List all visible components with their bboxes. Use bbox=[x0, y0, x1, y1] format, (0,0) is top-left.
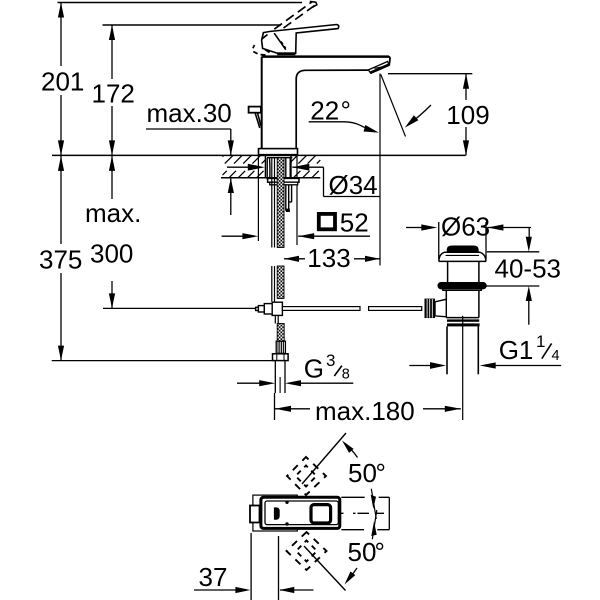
drain union nut bbox=[447, 319, 479, 321]
svg-text:50: 50 bbox=[348, 458, 377, 488]
dimension 375 vertical line bbox=[60, 156, 62, 244]
hole left edge bbox=[264, 155, 266, 177]
dashed diamond bottom inner bbox=[296, 541, 317, 562]
G3/8 nut bbox=[273, 354, 289, 361]
base plate bottom dark line bbox=[258, 154, 297, 156]
top view square spout section bbox=[311, 505, 331, 523]
arrowheads: dimension 201 bbox=[58, 3, 64, 18]
swivel X mark lines bbox=[371, 489, 376, 519]
40-53 bottom reference line bbox=[485, 285, 540, 287]
dashed diamond top inner bbox=[296, 466, 317, 487]
arrowheads: G3/8 bbox=[259, 380, 275, 386]
counter top line bbox=[52, 154, 466, 156]
shank top inner line bbox=[267, 157, 292, 159]
horizontal pop-up rod bbox=[282, 307, 421, 311]
top view D mark bbox=[274, 507, 280, 519]
arrowheads: dia34 bbox=[248, 164, 265, 171]
375 bottom reference line bbox=[52, 360, 273, 362]
G1 1/4 leader line bbox=[495, 365, 561, 367]
dimension max300 vertical line bbox=[111, 156, 113, 199]
37 extension line left bbox=[250, 533, 252, 600]
37 extension line right bbox=[278, 536, 280, 600]
50deg diagonal line bottom bbox=[304, 546, 346, 591]
arrowheads: 133 bbox=[284, 256, 299, 262]
max180 dim lines bbox=[275, 408, 310, 410]
svg-text:max.180: max.180 bbox=[315, 396, 415, 426]
side tab wedge bbox=[255, 113, 261, 128]
arrowheads: dia63 bbox=[421, 224, 437, 230]
reference line spout top (172) bbox=[103, 24, 282, 26]
svg-text:375: 375 bbox=[39, 245, 82, 275]
svg-text:52: 52 bbox=[340, 208, 369, 238]
svg-text:max.30: max.30 bbox=[147, 98, 232, 128]
spout right edge with chamfer bbox=[389, 57, 390, 66]
svg-text:Ø34: Ø34 bbox=[329, 170, 378, 200]
max.30 leader underline bbox=[146, 128, 231, 130]
37 arrowheads bbox=[235, 587, 250, 593]
drain body bbox=[446, 290, 479, 317]
svg-text:133: 133 bbox=[307, 243, 350, 273]
109 top reference line bbox=[388, 73, 472, 75]
pull rod upper segment bbox=[271, 158, 273, 248]
Ø34 underline bbox=[324, 196, 381, 198]
counter hatching right of hole bbox=[291, 156, 320, 178]
svg-text:°: ° bbox=[375, 537, 385, 567]
svg-text:8: 8 bbox=[342, 366, 350, 382]
svg-text:37: 37 bbox=[199, 562, 228, 592]
handle lever solid bbox=[262, 25, 339, 54]
G1 1/4 fraction slash bbox=[542, 343, 552, 358]
svg-text:max.: max. bbox=[85, 198, 141, 228]
svg-text:40-53: 40-53 bbox=[495, 254, 562, 284]
50deg bottom leader arc bbox=[348, 568, 358, 581]
arrowhead: G1 1/4 left bbox=[430, 362, 446, 369]
dashed diamond bottom outer bbox=[287, 532, 327, 570]
label sq52 square symbol bbox=[319, 214, 335, 229]
svg-text:1: 1 bbox=[536, 332, 545, 351]
22 deg leader curve bbox=[309, 122, 375, 132]
max180 extension line left bbox=[274, 393, 276, 420]
37 arrow lines bbox=[194, 589, 236, 591]
braided hose segment 3 bbox=[277, 324, 284, 342]
arrowheads: 109 bbox=[463, 74, 469, 89]
G3/8 arrow lines bbox=[237, 382, 260, 384]
top view body inner outline bbox=[265, 501, 338, 525]
22 deg slanted stream line bbox=[381, 75, 406, 137]
50deg top leader arc bbox=[345, 444, 358, 458]
109 dim vertical line bbox=[465, 74, 467, 100]
faucet body left edge bbox=[261, 57, 263, 150]
drain plug cap bbox=[448, 246, 478, 251]
top view base plate thin outline bbox=[253, 495, 297, 531]
counter bottom line bbox=[221, 177, 320, 179]
arrowheads: 40-53 bbox=[526, 237, 532, 252]
drain flange inner line bbox=[446, 254, 479, 256]
50deg diagonal line top bbox=[302, 433, 346, 484]
G3/8 hose end corrugated section bbox=[273, 341, 289, 393]
svg-text:G1: G1 bbox=[499, 335, 534, 365]
svg-text:G: G bbox=[304, 354, 324, 384]
dia63 extension lines bbox=[438, 222, 440, 259]
dia63 arrow lines bbox=[406, 227, 422, 229]
svg-text:3: 3 bbox=[326, 351, 335, 370]
drain o-ring seal bbox=[438, 283, 486, 289]
aerator outline bbox=[368, 62, 389, 74]
arrowheads: max180 bbox=[275, 406, 291, 412]
washer second band bbox=[270, 182, 298, 185]
drain knurled knob bbox=[425, 299, 436, 318]
Ø34 leader vertical bbox=[323, 167, 325, 196]
drain flange left profile bbox=[439, 252, 444, 261]
braided hose segment 2 bbox=[277, 266, 284, 299]
handle inner edge line bbox=[274, 33, 286, 50]
50deg leader arrowheads bbox=[342, 441, 354, 453]
shank left wall bbox=[267, 158, 270, 180]
side tab small rect bbox=[249, 107, 261, 113]
pop-up rod T coupling bbox=[256, 302, 283, 323]
svg-text:201: 201 bbox=[41, 67, 84, 97]
22 deg second leader curve bbox=[408, 105, 431, 125]
40-53 top reference line bbox=[487, 251, 540, 253]
arrowhead: G1 1/4 bbox=[480, 362, 496, 368]
dia63 leader elbow down to 40-53 top arrow bbox=[528, 228, 530, 239]
coupling lower stub bbox=[275, 316, 278, 324]
G3/8 fraction slash bbox=[334, 366, 342, 376]
svg-text:Ø63: Ø63 bbox=[441, 211, 490, 241]
arrowheads: sq52 bbox=[242, 233, 258, 239]
counter hatching left of hole bbox=[223, 156, 266, 178]
svg-text:°: ° bbox=[341, 96, 351, 126]
drain flange bottom edge bbox=[439, 260, 486, 262]
pull rod lower segment bbox=[271, 266, 273, 302]
handle dashed inner arc bbox=[281, 41, 286, 48]
max.30 upper arrow line bbox=[230, 129, 232, 155]
drain flange plate under oring bbox=[443, 289, 482, 291]
svg-text:50: 50 bbox=[348, 537, 377, 567]
drain flange right profile bbox=[480, 252, 486, 261]
handle dashed knuckle outline bbox=[253, 35, 270, 56]
spout underside with fillet bbox=[296, 70, 368, 149]
arrowheads: 22deg leaders bbox=[364, 125, 379, 133]
37 dimension bbox=[194, 533, 314, 600]
arrowheads: dimension 375 bbox=[58, 156, 64, 171]
sq52 dim arrow lines bbox=[222, 235, 244, 237]
svg-text:4: 4 bbox=[552, 348, 560, 364]
reference line top (201) bbox=[58, 2, 303, 4]
drain tailpipe walls bbox=[446, 326, 448, 374]
arrowheads: dimension 172 bbox=[109, 25, 115, 40]
sq52 extension line right bbox=[296, 156, 298, 245]
handle dashed open tip hook bbox=[310, 1, 317, 7]
G1 1/4 left arrow line bbox=[409, 365, 431, 367]
svg-text:300: 300 bbox=[90, 239, 133, 269]
handle dashed open position lever bbox=[274, 1, 314, 29]
sq52 extension line left bbox=[257, 156, 259, 241]
phantom rect right edge bbox=[388, 497, 390, 529]
max300 bottom reference line bbox=[103, 307, 258, 309]
drain flange top line bbox=[444, 251, 480, 253]
svg-text:172: 172 bbox=[92, 78, 135, 108]
dashed diamond top outer bbox=[287, 433, 358, 591]
133 extension line (stream) bbox=[379, 74, 381, 266]
faucet body top edge bbox=[262, 55, 389, 58]
40-53 bottom arrow line bbox=[528, 301, 530, 325]
dimension 172 vertical line bbox=[111, 25, 113, 79]
top view dots bbox=[285, 501, 288, 504]
drain center line bbox=[462, 316, 464, 420]
top view body outer bbox=[261, 497, 340, 528]
hole right edge bbox=[290, 155, 292, 177]
aerator inner thin line bbox=[374, 66, 387, 69]
svg-text:22: 22 bbox=[310, 96, 339, 126]
svg-text:109: 109 bbox=[446, 100, 489, 130]
drain side port cone bbox=[435, 299, 446, 317]
braided hose segment 1 bbox=[277, 158, 284, 341]
svg-text:°: ° bbox=[376, 458, 386, 488]
mounting nut bracket bbox=[286, 185, 292, 211]
faucet base plate bbox=[259, 149, 298, 156]
dimension 201 vertical line bbox=[60, 3, 62, 67]
arrowheads: dimension max300 bbox=[109, 156, 115, 171]
mounting nut foot bbox=[286, 209, 290, 212]
max.30 lower arrow line bbox=[230, 178, 232, 215]
dim Ø34 arrow lines bbox=[227, 166, 250, 168]
center dash-dot line bbox=[341, 512, 385, 514]
133 dimension line bbox=[284, 258, 305, 260]
arrowheads: max30 bbox=[228, 140, 234, 155]
top view left tab bbox=[250, 506, 260, 523]
aerator dark face bbox=[370, 65, 388, 73]
G3/8 supply pipe bbox=[274, 361, 276, 393]
phantom rect bottom edge bbox=[341, 529, 389, 531]
drain neck walls bbox=[447, 261, 449, 283]
swivel X arrowheads bbox=[371, 495, 376, 509]
shank right wall bbox=[286, 158, 290, 178]
washer under counter bbox=[268, 178, 299, 182]
handle gap dark bar bbox=[277, 52, 295, 55]
phantom rect top edge bbox=[341, 496, 389, 498]
